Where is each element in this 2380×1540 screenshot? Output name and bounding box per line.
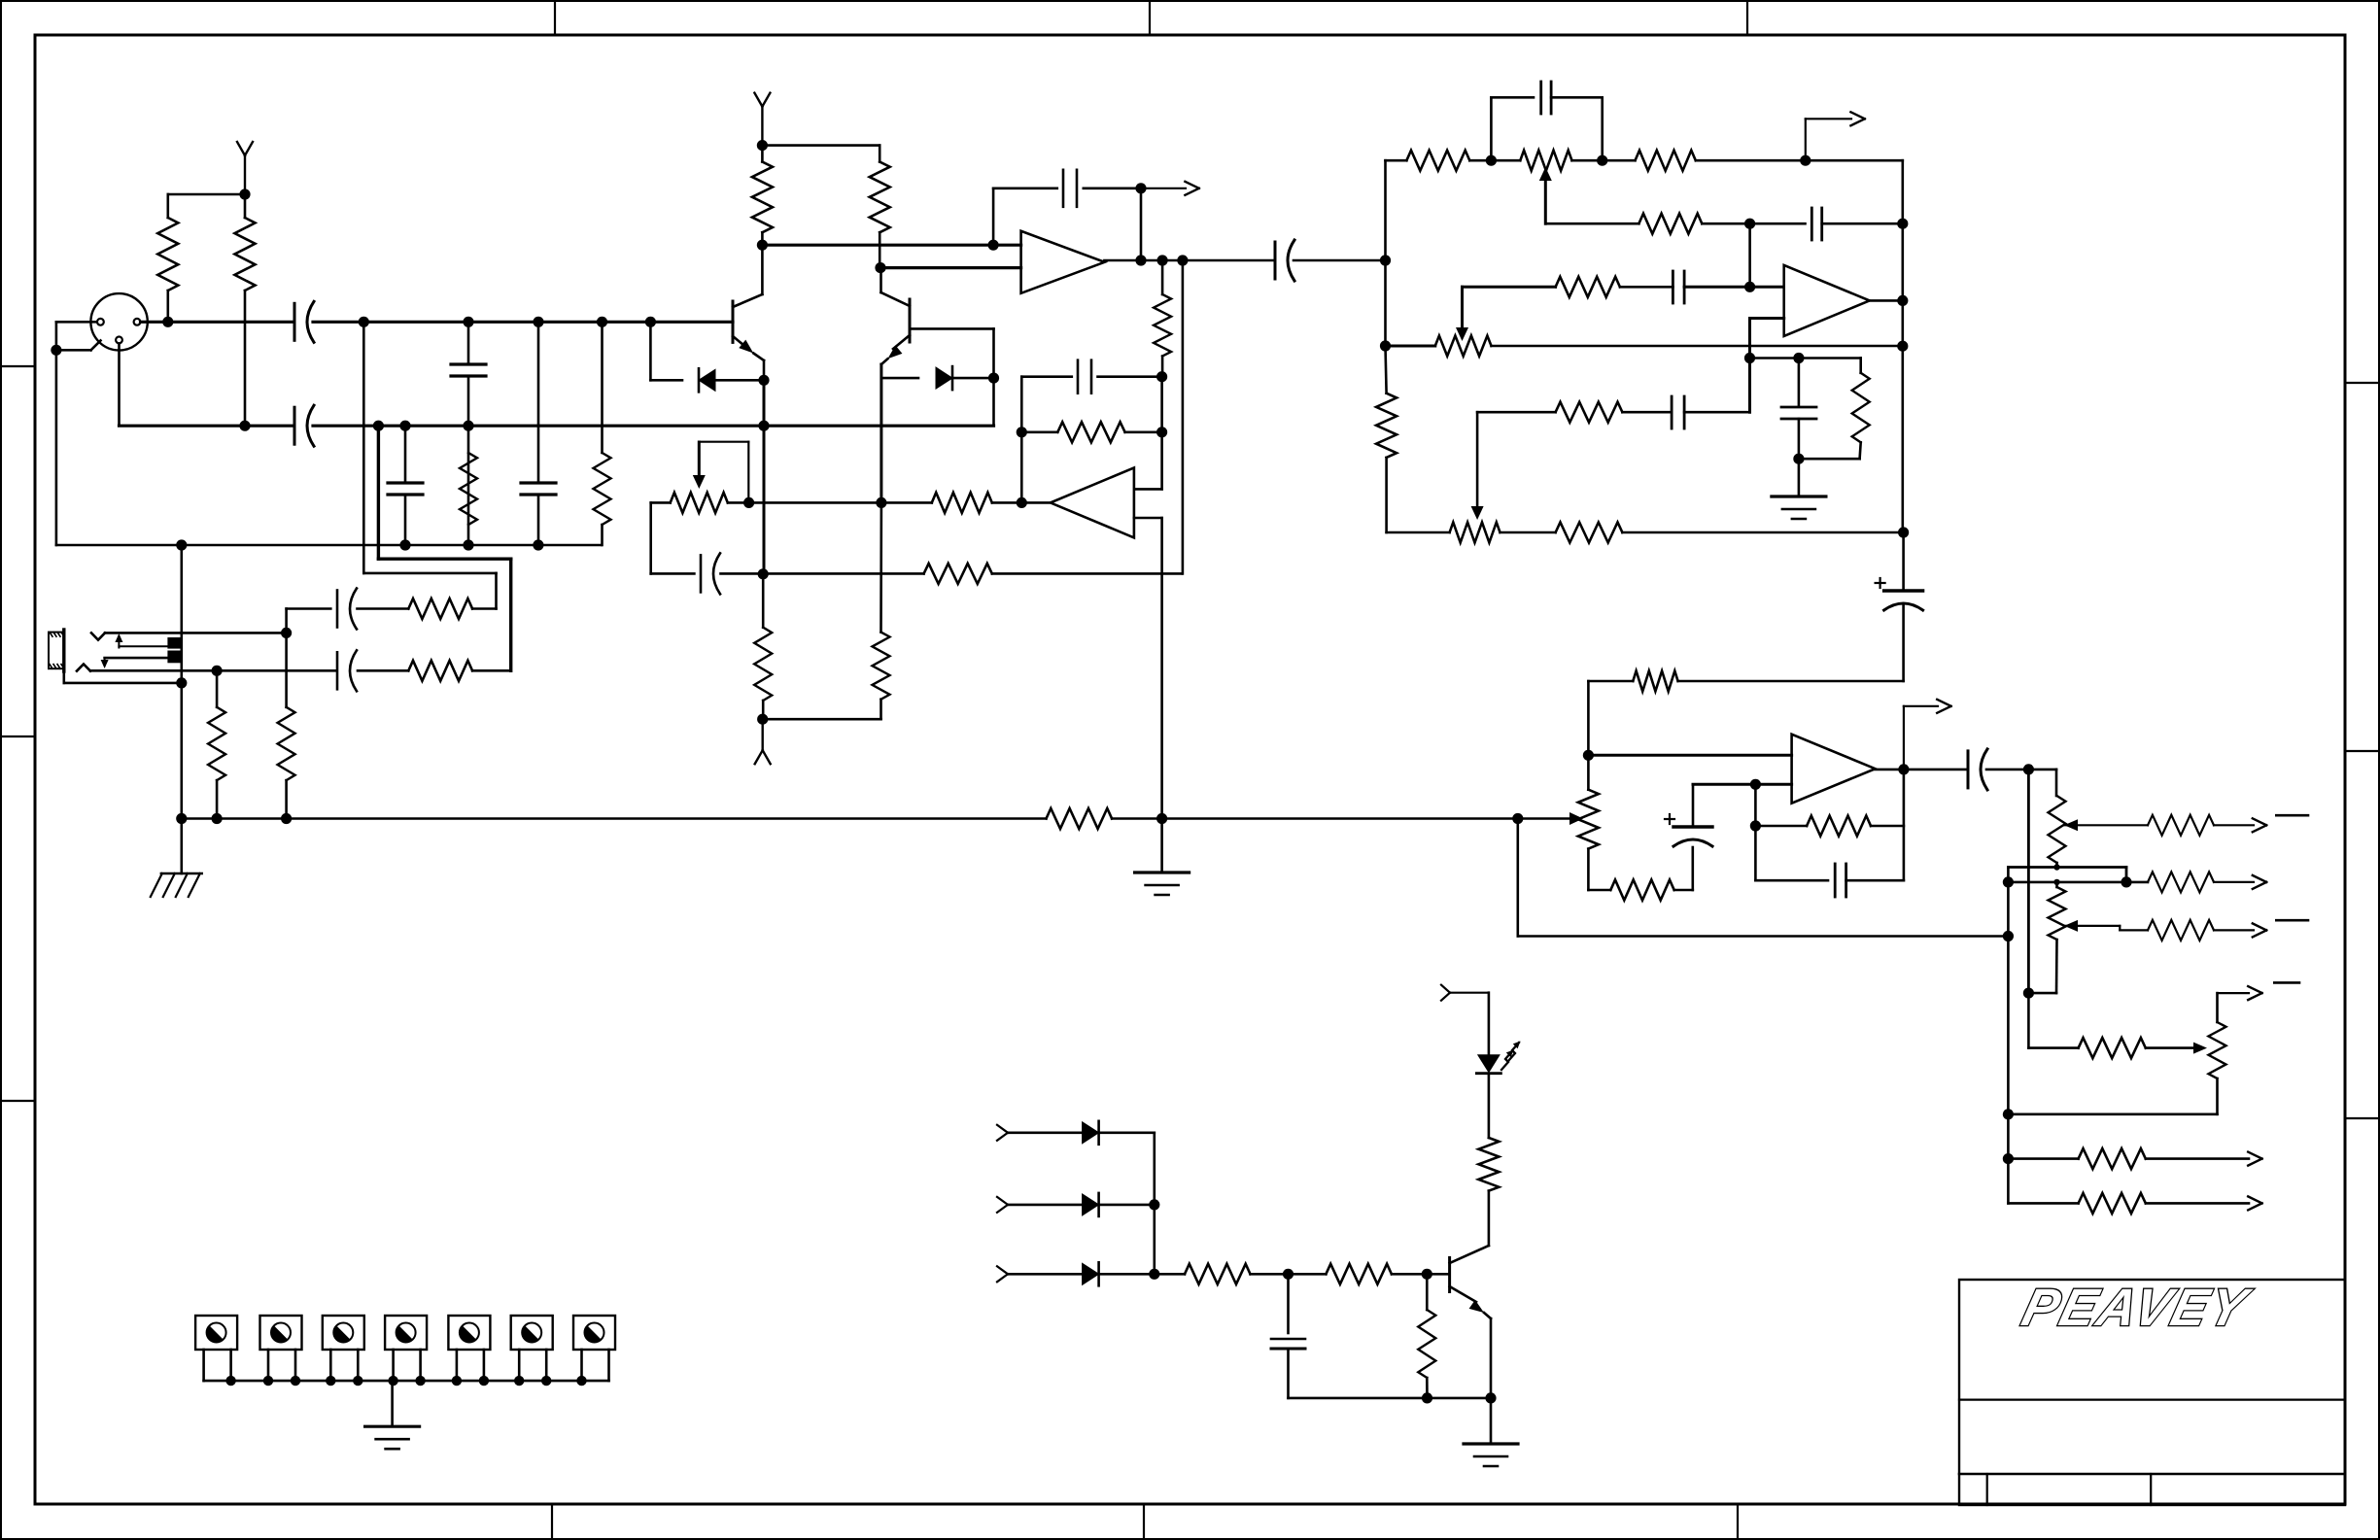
svg-text:PEAVEY: PEAVEY <box>2017 1278 2257 1337</box>
